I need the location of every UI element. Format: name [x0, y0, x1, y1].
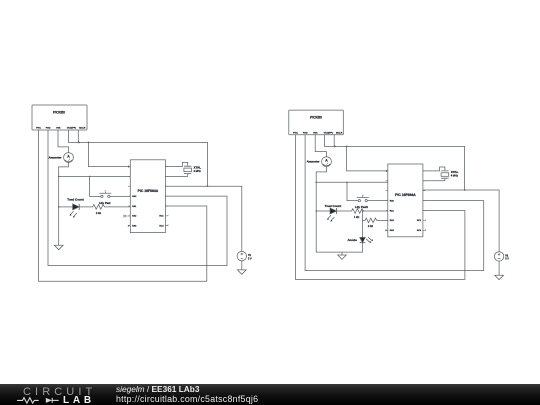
svg-text:Ammeter: Ammeter	[307, 160, 321, 164]
svg-text:1 kΩ: 1 kΩ	[354, 216, 359, 219]
svg-text:4 MHz: 4 MHz	[451, 175, 459, 178]
junction VSS rail / pushbutton	[89, 176, 91, 178]
input arrow on RA3 pin	[128, 225, 130, 227]
svg-text:VSS: VSS	[313, 132, 318, 134]
pushbutton SW2 (right)	[357, 195, 369, 202]
svg-text:XTAL: XTAL	[194, 165, 202, 169]
wire VDD line PIC to V1	[165, 186, 241, 251]
wire VSS rail to PIC pin2 (right)	[316, 181, 388, 183]
IC U2 PIC 16F684A (right)	[386, 164, 426, 237]
wire VSS rail to PIC pin2	[59, 175, 131, 177]
svg-text:Lily Pad: Lily Pad	[99, 201, 111, 205]
wire VDD header top rail	[69, 133, 208, 186]
programmer header J2 PICKIT3 (right)	[289, 110, 344, 138]
svg-text:1 kΩ: 1 kΩ	[96, 212, 101, 215]
svg-text:Ammeter: Ammeter	[49, 155, 63, 159]
LED D1 "Toad Count" (left)	[67, 198, 83, 218]
svg-text:MCLR: MCLR	[336, 132, 343, 134]
ground GND2 under V1 (left)	[237, 270, 246, 274]
junction VDD vertical/horizontal (right)	[464, 189, 466, 191]
wire LED to resistor (right)	[337, 210, 351, 212]
svg-text:siegelm / EE361 LAb3: siegelm / EE361 LAb3	[116, 384, 200, 394]
wire LED to resistor	[79, 206, 91, 208]
op IC U1 PIC 16F684A (left)	[128, 160, 168, 233]
wire VSS header to ammeter	[58, 133, 69, 153]
wire VSS header to ammeter (right)	[315, 138, 326, 157]
svg-text:PIC 16F684A: PIC 16F684A	[138, 189, 159, 193]
wire PGC net (right loop)	[295, 138, 465, 280]
wire VDD header top rail (right)	[325, 138, 465, 190]
svg-text:XTAL: XTAL	[451, 170, 459, 174]
wire to pushbutton (right)	[347, 182, 358, 200]
wire crystal bottom to PIC pin2 (right)	[423, 179, 445, 181]
svg-text:PGC: PGC	[36, 128, 41, 130]
voltage source V2 5V (right)	[494, 252, 509, 261]
svg-text:4 MHz: 4 MHz	[194, 170, 202, 173]
wire PIC pin to crystal top (right)	[423, 167, 445, 171]
footer bar	[0, 384, 540, 405]
svg-text:PIC 16F684A: PIC 16F684A	[395, 193, 416, 197]
wire V1 to ground	[241, 261, 243, 270]
ground GND1 (left circuit)	[54, 245, 63, 249]
wire resistor to PIC RA1	[106, 206, 131, 208]
svg-text:VSS: VSS	[56, 128, 61, 130]
resistor R3 1k (right, to RA2)	[363, 218, 378, 228]
junction VSS rail / pushbutton (right)	[346, 182, 348, 184]
resistor R2 "Lily Pad1" 1k (right)	[350, 205, 368, 219]
pushbutton SW1 (left)	[99, 191, 111, 198]
svg-text:PGD: PGD	[303, 132, 308, 134]
wire PGD net (header pin2 - loop to PIC RC pin)	[48, 133, 227, 266]
wire PIC pin to crystal top	[165, 162, 187, 166]
ammeter AM2 (right)	[307, 157, 332, 167]
crystal X1 XTAL 4MHz (left)	[184, 165, 202, 173]
wire MCLR header pin drop with arrow	[77, 133, 79, 142]
junction VDD rail / MCLR branch (right)	[346, 146, 348, 148]
wire resistor R3 to PIC RA2 (right)	[378, 219, 388, 221]
wire MCLR header pin drop with arrow (right)	[333, 138, 335, 147]
wire PGD net (right loop)	[305, 138, 484, 271]
wire pushbutton to PIC RA0	[110, 195, 130, 197]
junction resistor / LED2 branch (right)	[362, 210, 364, 212]
wire MCLR branch to PIC pin1 (arrow)	[88, 142, 128, 166]
no-connect X on RA2	[123, 215, 130, 218]
LED D3 "Anode" pointing down (right)	[347, 237, 373, 243]
resistor R1 "Lily Pad" 1k (left)	[92, 201, 111, 215]
junction VDD vertical/horizontal	[207, 185, 209, 187]
junction VDD rail / MCLR branch	[88, 142, 90, 144]
svg-text:MCLR: MCLR	[79, 128, 86, 130]
wire ammeter bottom to ground rail (right)	[316, 167, 326, 253]
svg-text:Anode: Anode	[347, 238, 357, 242]
wire branch down to resistor R3 tap and LED2	[362, 211, 364, 237]
crystal X2 XTAL 4MHz (right)	[441, 170, 459, 178]
wire pushbutton to PIC RA0 (right)	[367, 200, 387, 202]
svg-text:5 V: 5 V	[248, 257, 252, 260]
junction ground rail / VSS rail (right)	[315, 182, 317, 184]
wire resistor to PIC RA1 (right)	[362, 210, 388, 212]
wire MCLR branch to PIC pin1 (right)	[347, 146, 387, 171]
voltage source V1 5V (left)	[237, 251, 252, 260]
svg-text:PICKit3: PICKit3	[310, 116, 322, 120]
svg-text:PGD: PGD	[46, 128, 51, 130]
programmer header J1 PICKIT3 (left)	[32, 105, 87, 133]
junction ground rail / LED row (right)	[315, 210, 317, 212]
svg-text:1 kΩ: 1 kΩ	[368, 225, 373, 228]
input arrow on RA3 pin (right)	[385, 229, 387, 231]
svg-text:PGC: PGC	[293, 132, 298, 134]
svg-text:VDD(PP): VDD(PP)	[324, 132, 333, 134]
svg-text:Toad Count: Toad Count	[67, 198, 83, 202]
wire ground rail to LED	[59, 206, 73, 208]
wire crystal bottom to PIC pin2	[165, 174, 187, 177]
wire ammeter bottom to ground rail	[59, 162, 69, 245]
wire VDD line PIC to V2 (right)	[423, 190, 499, 252]
ground GND4 under V2 (right)	[495, 275, 504, 279]
wire bottom rail to LED2 (right)	[316, 243, 362, 252]
svg-text:PICKit3: PICKit3	[53, 110, 65, 114]
junction at ground rail / LED row	[58, 206, 60, 208]
svg-text:Toad Count: Toad Count	[325, 204, 341, 208]
svg-text:LAB: LAB	[63, 395, 95, 405]
wire ground rail to LED (right)	[316, 210, 330, 212]
LED D2 "Toad Count" (right)	[325, 204, 341, 222]
svg-text:VDD(PP): VDD(PP)	[67, 128, 76, 130]
logo resistor-diode glyph	[17, 398, 59, 403]
wire PGC net (header pin1 - big loop to PIC RC pin)	[39, 133, 207, 281]
svg-text:5 V: 5 V	[505, 258, 509, 261]
junction at ground rail / VSS rail	[58, 176, 60, 178]
svg-text:http://circuitlab.com/c5atsc8n: http://circuitlab.com/c5atsc8nf5qj6	[116, 394, 258, 404]
wire to pushbutton	[90, 176, 101, 196]
wire V2 to ground	[498, 261, 500, 275]
ammeter AM1	[49, 153, 74, 163]
svg-text:Lily Pad1: Lily Pad1	[355, 205, 369, 209]
ground GND3 (right circuit center)	[341, 252, 343, 255]
